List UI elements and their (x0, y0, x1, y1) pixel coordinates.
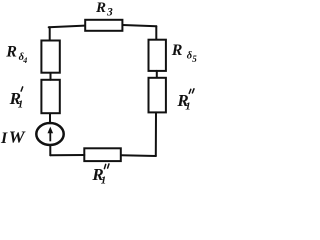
svg-text:1: 1 (185, 101, 191, 113)
label Rδ4 (5, 44, 27, 66)
wire bottom right segment (122, 154, 156, 157)
svg-text:4: 4 (22, 56, 27, 65)
wire top right segment (123, 25, 157, 26)
wire right gap (156, 71, 158, 78)
label R3 (95, 0, 113, 19)
resistor Rδ4 body (41, 41, 59, 73)
svg-text:1: 1 (18, 98, 24, 110)
svg-text:R: R (5, 44, 17, 61)
wire left gap (50, 73, 52, 80)
wire top left segment (49, 26, 85, 28)
svg-text:1: 1 (101, 175, 107, 187)
current source arrow (48, 127, 54, 142)
wire below source (49, 145, 51, 155)
svg-text:I: I (0, 130, 8, 147)
wire right vertical top (155, 26, 157, 40)
resistor R3 body (85, 20, 122, 31)
wire bottom left segment (50, 154, 84, 156)
svg-text:R: R (171, 42, 183, 59)
wire source to R1' (49, 114, 51, 124)
wire right vertical bottom (155, 112, 157, 156)
svg-text:R: R (95, 0, 106, 16)
svg-text:W: W (9, 127, 27, 146)
resistor R1' body (41, 80, 59, 113)
wire top-left vertical (49, 27, 51, 41)
label R1'' bottom (91, 164, 109, 187)
svg-text:5: 5 (192, 54, 197, 64)
resistor R1'' right body (149, 78, 166, 113)
label Rδ5 (171, 42, 198, 64)
svg-text:3: 3 (106, 7, 113, 19)
label R1'' right (176, 89, 194, 113)
label IW (0, 127, 27, 147)
resistor R1'' bottom body (84, 148, 121, 161)
current source IW circle (36, 123, 63, 145)
resistor Rδ5 body (149, 40, 166, 71)
label R1' (9, 87, 24, 110)
